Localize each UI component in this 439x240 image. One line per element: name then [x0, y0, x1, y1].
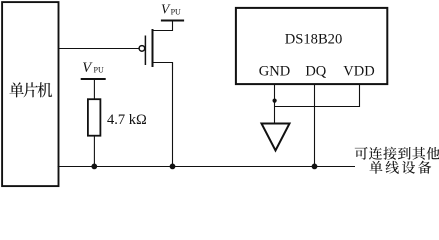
wire source to bus	[172, 63, 174, 167]
node junction source/bus	[170, 164, 176, 170]
wire rail to resistor	[93, 79, 95, 99]
power V_PU rail (drain)	[161, 20, 184, 22]
pin wire GND	[274, 84, 276, 124]
svg-text:PU: PU	[94, 65, 104, 74]
transistor Q1 gate bubble	[139, 46, 145, 52]
note line2 单线设备	[369, 161, 431, 174]
transistor Q1 channel	[152, 29, 154, 67]
power V_PU rail (pull-up)	[81, 78, 106, 80]
label 单片机	[9, 82, 52, 97]
svg-text:4.7 kΩ: 4.7 kΩ	[107, 112, 147, 128]
wire resistor to bus	[93, 136, 95, 167]
svg-text:PU: PU	[171, 8, 181, 17]
ground	[262, 124, 290, 151]
resistor 4.7 kOhm	[88, 99, 101, 136]
pin wire DQ	[314, 84, 316, 167]
wire 1-wire bus	[58, 166, 356, 168]
IC DS18B20 box	[236, 8, 387, 84]
node junction GND/VDD tie	[273, 99, 277, 103]
node junction DQ/bus	[312, 164, 318, 170]
transistor Q1 drain lead	[153, 21, 173, 31]
transistor Q1 gate plate	[144, 36, 146, 66]
svg-text:VDD: VDD	[343, 64, 374, 80]
wire VDD to GND tie	[275, 84, 360, 107]
transistor Q1 source lead	[153, 63, 173, 71]
svg-text:DQ: DQ	[305, 64, 326, 80]
wire MCU output to gate	[59, 48, 139, 50]
svg-text:DS18B20: DS18B20	[285, 32, 343, 48]
svg-text:GND: GND	[259, 64, 290, 80]
microcontroller box	[2, 2, 58, 186]
note line1 可连接到其他	[355, 147, 439, 160]
node junction resistor/bus	[91, 164, 97, 170]
